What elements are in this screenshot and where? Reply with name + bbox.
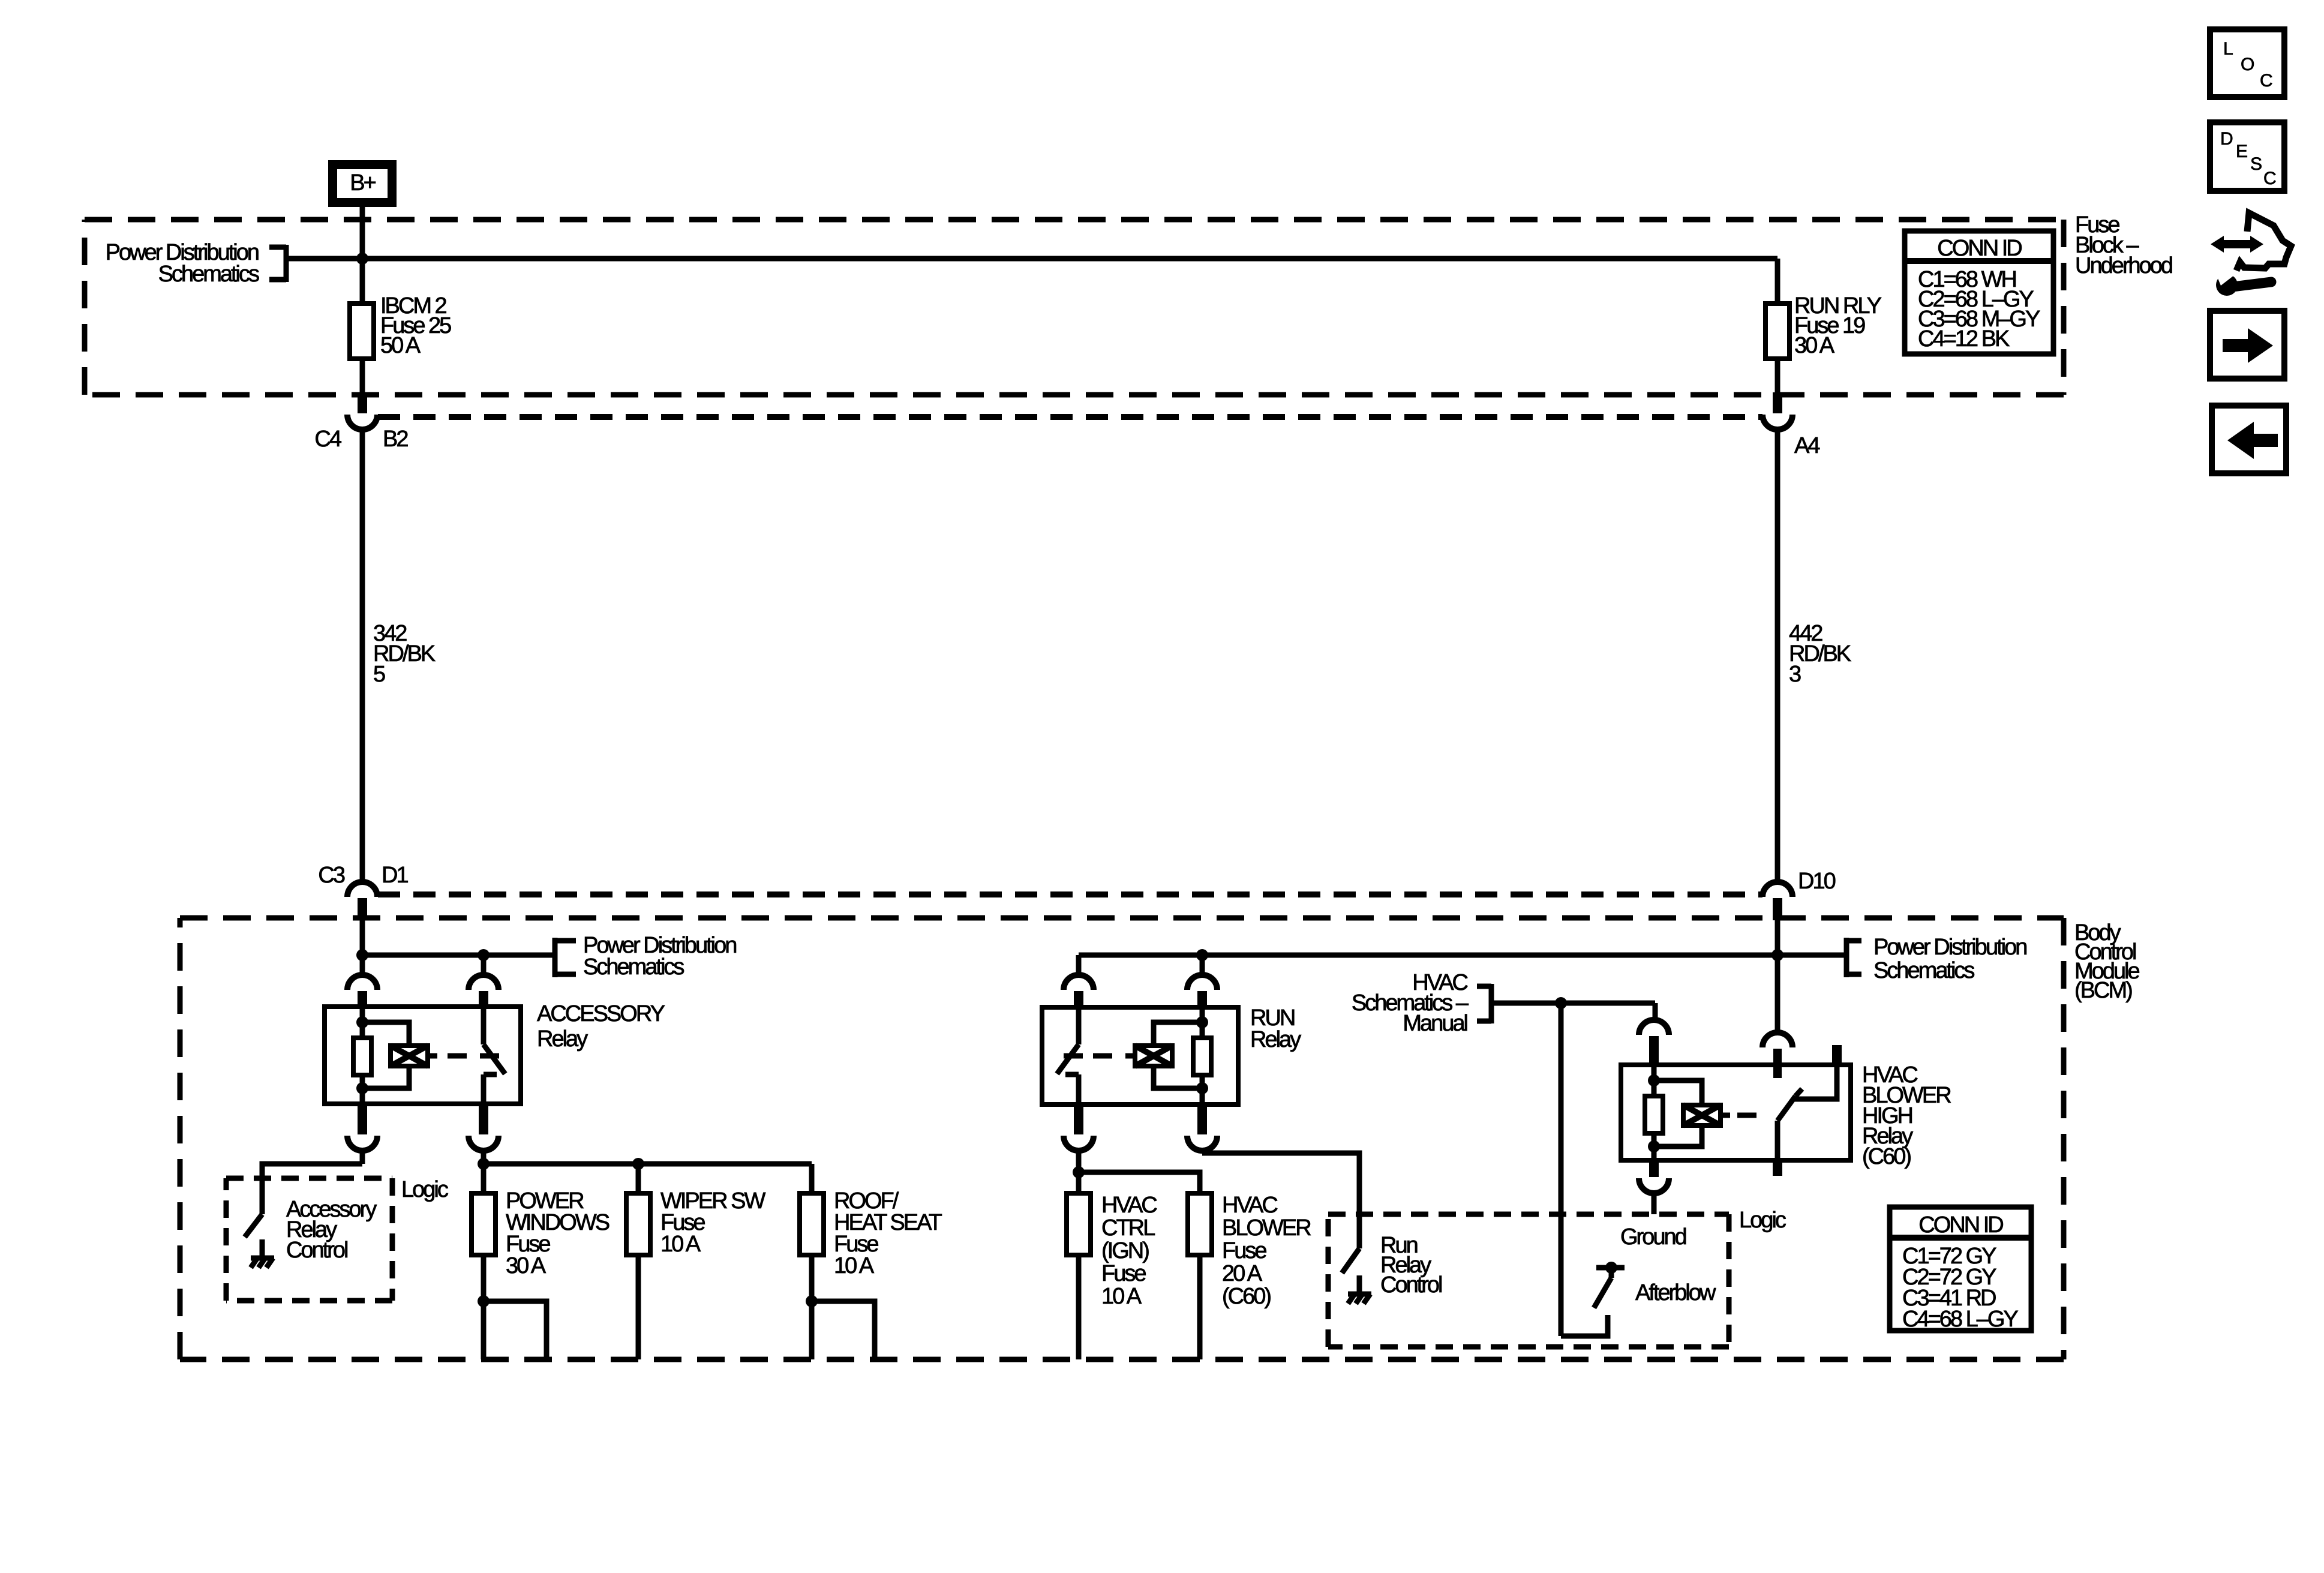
- connector C3/D1 arc: [347, 882, 377, 897]
- run relay coil winding X-box: [1135, 1046, 1172, 1066]
- connector C4/B2 arc: [347, 415, 377, 430]
- switch accessory relay control: [245, 1214, 262, 1237]
- node junction BCM left feed: [356, 949, 368, 961]
- svg-text:L: L: [2223, 39, 2233, 59]
- wire 342 circuit left drop: [360, 430, 365, 882]
- connector A4 arc: [1762, 415, 1792, 430]
- wire hvac schematics feed: [1491, 1001, 1655, 1006]
- svg-text:C: C: [2260, 71, 2272, 91]
- connector C3/D1 terminal stub: [358, 898, 367, 920]
- svg-text:10 A: 10 A: [660, 1232, 701, 1257]
- svg-text:Underhood: Underhood: [2075, 253, 2172, 278]
- wire power windows output continuation: [484, 1301, 547, 1359]
- fuse ROOF/HEAT SEAT 10 A: [800, 1193, 824, 1255]
- ground accessory relay control: [260, 1239, 265, 1258]
- connector A4 terminal stub: [1773, 392, 1782, 413]
- fuse HVAC BLOWER 20 A: [1188, 1193, 1212, 1255]
- battery positive terminal B+: [328, 160, 397, 207]
- svg-text:Relay: Relay: [537, 1026, 588, 1052]
- accessory relay coil nodes: [356, 1016, 368, 1028]
- svg-text:C4=12 BK: C4=12 BK: [1918, 326, 2010, 352]
- svg-text:Schematics: Schematics: [158, 262, 259, 287]
- wire accessory relay control drop: [360, 1150, 365, 1164]
- switch run relay control: [1342, 1248, 1359, 1273]
- hvac relay coil winding X-box: [1683, 1105, 1721, 1125]
- wire hvac ctrl fuse output: [1076, 1255, 1082, 1359]
- accessory relay actuation dashes: [428, 1053, 437, 1059]
- svg-text:E: E: [2236, 142, 2247, 161]
- wire drops to fuses: [481, 1164, 487, 1193]
- icon arrow left box: [2212, 406, 2286, 473]
- svg-text:Control: Control: [1380, 1272, 1442, 1298]
- wire accessory relay switch branch: [481, 955, 487, 975]
- svg-text:(IGN): (IGN): [1101, 1238, 1149, 1263]
- ground run relay control: [1357, 1275, 1362, 1294]
- wire drop to fuse 19: [1775, 259, 1780, 395]
- run relay coil nodes: [1196, 1016, 1208, 1028]
- wire BCM left feed: [360, 920, 365, 975]
- fuse RUN RLY Fuse 19 30 A: [1765, 304, 1789, 359]
- relay HVAC BLOWER HIGH box: [1621, 1065, 1851, 1160]
- node accessory output junction: [478, 1158, 490, 1170]
- svg-text:10 A: 10 A: [834, 1253, 875, 1278]
- switch afterblow: [1596, 1265, 1625, 1271]
- bracket to Power Distribution Schematics (top left): [269, 245, 286, 282]
- svg-text:30 A: 30 A: [506, 1253, 547, 1278]
- bracket to HVAC Schematics Manual: [1477, 984, 1491, 1023]
- wire through fuse 25: [360, 259, 365, 395]
- wire BCM right feed from D10: [1775, 920, 1780, 1032]
- accessory relay pin stubs bottom: [358, 1104, 367, 1134]
- svg-text:D10: D10: [1798, 869, 1836, 894]
- relay ACCESSORY box: [325, 1007, 521, 1104]
- node power windows output: [478, 1295, 490, 1307]
- svg-text:(BCM): (BCM): [2074, 978, 2132, 1003]
- wire 442 circuit right drop: [1775, 430, 1780, 882]
- wire hvac blower high relay coil drop: [1653, 1003, 1658, 1020]
- svg-text:Power Distribution: Power Distribution: [1873, 935, 2026, 960]
- svg-text:CTRL: CTRL: [1101, 1215, 1155, 1241]
- svg-text:Relay: Relay: [1250, 1027, 1301, 1052]
- svg-text:30 A: 30 A: [1794, 333, 1835, 358]
- wire B+ to bus: [360, 207, 365, 259]
- svg-text:D: D: [2220, 129, 2233, 149]
- hvac relay coil wire: [1652, 1065, 1657, 1096]
- bracket to Power Distribution Schematics (BCM right): [1846, 938, 1861, 977]
- wire main feed bus: [286, 256, 1777, 262]
- hvac relay coil pin connector arc bottom: [1639, 1178, 1669, 1193]
- svg-text:Ground: Ground: [1620, 1224, 1686, 1250]
- conn id table (fuse block): [1905, 231, 2053, 354]
- svg-text:Afterblow: Afterblow: [1635, 1280, 1716, 1305]
- conn id table (BCM): [1890, 1207, 2031, 1332]
- svg-text:10 A: 10 A: [1101, 1284, 1142, 1309]
- node junction accessory relay coil branch: [478, 949, 490, 961]
- svg-text:C: C: [2263, 169, 2276, 188]
- wire run relay switch output: [1076, 1150, 1082, 1193]
- wire wiper sw fuse output: [636, 1255, 641, 1359]
- run relay switch: [1076, 1007, 1082, 1044]
- run relay coil parallel loop: [1154, 1022, 1202, 1088]
- svg-text:50 A: 50 A: [380, 333, 421, 358]
- svg-text:C4=68 L–GY: C4=68 L–GY: [1902, 1307, 2018, 1332]
- in-line harness connector dashed line C3/D1 to D10: [378, 891, 1762, 897]
- node BCM right feed junction: [1771, 949, 1783, 961]
- wire fuse feed bus left: [484, 1161, 812, 1167]
- svg-text:S: S: [2250, 154, 2262, 174]
- relay RUN box: [1042, 1007, 1238, 1104]
- svg-text:BLOWER: BLOWER: [1222, 1215, 1311, 1241]
- hvac relay switch pin stub bottom: [1773, 1160, 1782, 1176]
- svg-text:Control: Control: [286, 1238, 347, 1263]
- svg-text:ACCESSORY: ACCESSORY: [537, 1001, 665, 1026]
- svg-text:A4: A4: [1794, 433, 1820, 458]
- accessory relay pin stubs top: [358, 991, 367, 1008]
- svg-text:Fuse: Fuse: [1101, 1261, 1146, 1286]
- svg-text:Schematics: Schematics: [583, 954, 684, 980]
- hvac relay resistor: [1645, 1096, 1663, 1133]
- svg-text:C3: C3: [318, 863, 344, 888]
- svg-text:Schematics: Schematics: [1873, 958, 1974, 983]
- accessory relay pin connector arcs bottom: [347, 1136, 377, 1151]
- wire BCM right power distribution bus: [1079, 953, 1846, 958]
- svg-text:B2: B2: [383, 427, 408, 452]
- svg-text:20 A: 20 A: [1222, 1261, 1263, 1286]
- hvac relay coil pin stub top: [1649, 1036, 1659, 1066]
- svg-text:C4: C4: [314, 427, 341, 452]
- icon panel repair with wrench: [2211, 213, 2291, 296]
- accessory relay pin connector arcs top: [347, 975, 377, 990]
- wire afterblow feed drop: [1559, 1003, 1564, 1336]
- run relay pin stubs bottom: [1074, 1104, 1083, 1134]
- node afterblow branch: [1555, 997, 1567, 1009]
- svg-text:HVAC: HVAC: [1101, 1193, 1157, 1218]
- icon arrow right box: [2210, 311, 2284, 379]
- fuse POWER WINDOWS 30 A: [472, 1193, 496, 1255]
- accessory relay switch: [481, 1007, 487, 1044]
- wire hvac blower fuse feed: [1079, 1172, 1200, 1193]
- wire roof fuse output: [809, 1255, 815, 1301]
- fuse HVAC CTRL (IGN) 10 A: [1067, 1193, 1091, 1255]
- hvac relay output pin stub top: [1832, 1045, 1842, 1066]
- node run relay switch branch: [1196, 949, 1208, 961]
- run relay control / ground logic dashed box: [1328, 1214, 1729, 1347]
- wire run relay pin drops: [1076, 955, 1082, 975]
- in-line harness connector dashed line C4/B2 to A4: [378, 414, 1762, 420]
- svg-text:D1: D1: [382, 863, 408, 888]
- wire BCM left power distribution branch: [362, 953, 555, 958]
- connector D10 arc: [1762, 882, 1792, 897]
- fuse IBCM 2 Fuse 25 50 A: [350, 304, 374, 359]
- accessory relay coil parallel loop: [362, 1022, 409, 1088]
- fuse block underhood dashed box: [85, 220, 2064, 395]
- node roof output: [806, 1295, 818, 1307]
- run relay actuation dashes: [1125, 1053, 1135, 1059]
- svg-text:5: 5: [373, 662, 385, 687]
- wire accessory relay output: [481, 1150, 487, 1164]
- hvac relay switch blade: [1775, 1121, 1780, 1160]
- fuse WIPER SW 10 A: [626, 1193, 650, 1255]
- wire roof output continuation: [812, 1301, 875, 1359]
- hvac relay coil parallel loop: [1654, 1080, 1702, 1146]
- svg-text:Fuse: Fuse: [1222, 1238, 1266, 1263]
- svg-text:Logic: Logic: [1739, 1208, 1786, 1233]
- wire hvac relay coil to logic: [1652, 1193, 1657, 1214]
- icon LOC box: [2210, 29, 2284, 97]
- bracket to Power Distribution Schematics (BCM left): [555, 938, 576, 977]
- accessory relay control logic dashed box: [226, 1178, 392, 1301]
- hvac relay coil nodes: [1648, 1074, 1660, 1086]
- wire afterblow fixed contact: [1561, 1315, 1608, 1336]
- body control module dashed box: [180, 918, 2064, 1359]
- node junction at B+ bus: [356, 253, 368, 265]
- icon DESC box: [2210, 122, 2284, 191]
- svg-text:Manual: Manual: [1403, 1011, 1467, 1036]
- run relay resistor: [1193, 1038, 1211, 1075]
- accessory relay resistor: [353, 1038, 371, 1075]
- svg-text:HVAC: HVAC: [1222, 1193, 1277, 1218]
- wire run relay coil to control switch: [1200, 1150, 1205, 1153]
- node hvac fuse feed junction: [1073, 1166, 1085, 1178]
- hvac relay feed pin stub: [1773, 1049, 1782, 1078]
- connector C4/B2 terminal stub: [358, 392, 367, 413]
- run relay pin stubs top: [1074, 991, 1083, 1008]
- svg-text:CONN ID: CONN ID: [1918, 1212, 2003, 1238]
- hvac relay fixed contact: [1794, 1065, 1837, 1099]
- accessory relay coil wire: [360, 1007, 365, 1038]
- hvac relay actuation dashes: [1721, 1113, 1730, 1118]
- run relay pin connector arcs bottom: [1064, 1136, 1094, 1151]
- connector D10 terminal stub: [1773, 898, 1782, 920]
- svg-text:3: 3: [1789, 662, 1801, 687]
- svg-text:CONN ID: CONN ID: [1937, 236, 2022, 261]
- accessory relay coil winding X-box: [391, 1046, 428, 1066]
- hvac relay coil pin connector arc top: [1639, 1020, 1669, 1035]
- svg-text:O: O: [2241, 55, 2254, 74]
- wire power windows fuse output: [481, 1255, 487, 1301]
- svg-text:Logic: Logic: [401, 1177, 448, 1202]
- svg-text:B+: B+: [350, 170, 376, 196]
- svg-text:(C60): (C60): [1222, 1284, 1271, 1309]
- wire hvac blower fuse output: [1197, 1255, 1203, 1359]
- node wiper fuse junction: [632, 1158, 644, 1170]
- run relay coil wire: [1200, 1007, 1205, 1038]
- hvac relay feed pin connector arc: [1762, 1032, 1792, 1047]
- svg-text:(C60): (C60): [1862, 1144, 1911, 1169]
- run relay pin connector arcs top: [1064, 975, 1094, 990]
- hvac relay coil pin stub bottom: [1649, 1160, 1659, 1177]
